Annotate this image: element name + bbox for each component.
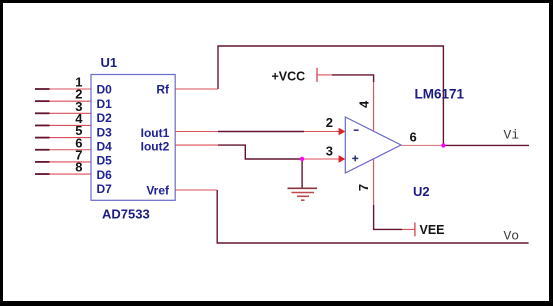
svg-text:D4: D4: [97, 140, 113, 154]
svg-text:AD7533: AD7533: [102, 207, 150, 222]
svg-text:3: 3: [326, 143, 333, 158]
svg-text:8: 8: [75, 160, 82, 175]
svg-text:D2: D2: [97, 111, 113, 125]
svg-text:7: 7: [356, 184, 371, 191]
svg-text:Vo: Vo: [504, 229, 520, 244]
svg-text:Iout2: Iout2: [141, 139, 170, 153]
svg-text:D7: D7: [97, 182, 113, 196]
svg-text:Vi: Vi: [504, 128, 520, 143]
svg-text:D3: D3: [97, 125, 113, 139]
svg-text:2: 2: [326, 115, 333, 130]
svg-text:Rf: Rf: [156, 83, 170, 97]
svg-text:6: 6: [410, 130, 417, 145]
svg-text:D0: D0: [97, 83, 113, 97]
svg-text:4: 4: [356, 100, 371, 108]
svg-text:LM6171: LM6171: [415, 87, 465, 102]
svg-text:U2: U2: [413, 184, 430, 199]
svg-text:VEE: VEE: [420, 223, 445, 237]
svg-text:D5: D5: [97, 154, 113, 168]
svg-text:+VCC: +VCC: [272, 69, 306, 83]
svg-text:D6: D6: [97, 168, 113, 182]
svg-text:Iout1: Iout1: [141, 126, 170, 140]
svg-text:U1: U1: [101, 55, 118, 70]
svg-text:D1: D1: [97, 97, 113, 111]
svg-text:Vref: Vref: [146, 184, 170, 198]
